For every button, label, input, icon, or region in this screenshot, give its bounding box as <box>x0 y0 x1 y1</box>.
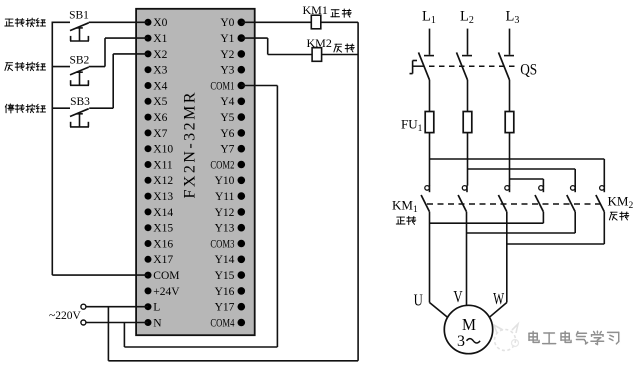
phase terminal L3 <box>504 9 519 56</box>
label U <box>414 291 423 310</box>
svg-text:X17: X17 <box>153 254 173 266</box>
PLC output pin Y6 <box>220 128 245 140</box>
phase terminal L1 <box>422 9 436 56</box>
fuse FU1 phase A <box>425 112 434 186</box>
svg-text:COM2: COM2 <box>210 159 234 171</box>
wire SB2 to X1 <box>89 38 148 67</box>
svg-text:SB2: SB2 <box>69 54 89 66</box>
PLC input pin +24V <box>145 286 181 298</box>
wire SB3 to X2 <box>89 54 148 108</box>
PLC input pin L <box>145 302 161 314</box>
PLC output pin Y16 <box>215 286 246 298</box>
PLC input pin X14 <box>145 207 174 219</box>
svg-text:Y13: Y13 <box>215 223 235 235</box>
PLC input pin X10 <box>145 144 174 156</box>
PLC controller FX2N-32MR <box>136 9 255 335</box>
PLC output pin Y2 <box>220 49 245 61</box>
svg-text:Y3: Y3 <box>220 65 234 77</box>
wire COM1 down to bus <box>241 86 277 348</box>
svg-text:Y4: Y4 <box>220 96 234 108</box>
svg-text:X1: X1 <box>153 33 167 45</box>
fuse FU1 label <box>401 117 423 135</box>
svg-text:U: U <box>414 291 423 310</box>
svg-text:Y7: Y7 <box>220 144 234 156</box>
PLC input pin X3 <box>145 65 168 77</box>
wire KM1/KM2 output bus W <box>507 243 605 245</box>
svg-text:X13: X13 <box>153 191 173 203</box>
disconnect switch QS <box>410 52 538 111</box>
svg-text:M: M <box>462 315 476 334</box>
watermark cat logo <box>494 324 519 351</box>
svg-text:Y1: Y1 <box>220 33 234 45</box>
PLC output pin Y11 <box>215 191 245 203</box>
svg-text:~220V: ~220V <box>49 310 81 322</box>
PLC output pin Y1 <box>220 33 245 45</box>
PLC output pin Y12 <box>215 207 246 219</box>
svg-text:+24V: +24V <box>153 286 180 298</box>
PLC output pin Y3 <box>220 65 245 77</box>
wire 220V live to L pin <box>86 306 148 308</box>
svg-text:L3: L3 <box>506 9 520 27</box>
svg-text:X15: X15 <box>153 223 173 235</box>
svg-text:X6: X6 <box>153 112 167 124</box>
wire U into motor <box>430 303 449 319</box>
svg-text:FX2N-32MR: FX2N-32MR <box>182 92 199 198</box>
svg-text:V: V <box>453 287 462 306</box>
PLC input pin COM <box>145 270 180 282</box>
svg-text:X14: X14 <box>153 207 173 219</box>
svg-text:L: L <box>153 302 160 314</box>
wire Y1 to KM2 coil <box>241 38 312 54</box>
svg-text:L1: L1 <box>422 9 436 27</box>
PLC input pin X15 <box>145 223 174 235</box>
wire coil return bus riser <box>357 22 359 361</box>
fuse FU1 phase B <box>463 112 472 186</box>
PLC input pin X7 <box>145 128 168 140</box>
phase terminal L2 <box>460 9 474 56</box>
label forward (zheng zhuan) <box>331 9 351 17</box>
PLC input pin X12 <box>145 175 174 187</box>
wire 220V neutral to N pin <box>86 322 148 324</box>
wire KM2 coil to return bus <box>322 54 359 56</box>
wire L tap down to coil return bus <box>108 307 358 361</box>
PLC input pin X2 <box>145 49 168 61</box>
wire SB1 to X0 <box>89 21 148 23</box>
label KM1 (right) <box>392 198 418 216</box>
svg-text:Y15: Y15 <box>215 270 235 282</box>
contactor coil KM1 <box>303 3 328 29</box>
KM1-KM2 linkage dashed line <box>427 203 600 205</box>
svg-text:QS: QS <box>520 62 537 79</box>
push button SB1 <box>52 9 89 41</box>
wire W into motor <box>488 303 507 319</box>
svg-text:X3: X3 <box>153 65 167 77</box>
svg-text:Y2: Y2 <box>220 49 234 61</box>
motor M 3-phase <box>444 305 492 353</box>
wire N tap down to COM1 bus <box>124 323 277 348</box>
svg-text:N: N <box>153 317 162 329</box>
terminal L (circle) <box>81 304 86 309</box>
watermark text dian gong dian qi xue xi <box>530 332 620 345</box>
PLC output pin Y13 <box>215 223 246 235</box>
svg-text:X16: X16 <box>153 238 173 250</box>
PLC input pin X13 <box>145 191 174 203</box>
contactor KM2 main contact pole2 <box>567 185 575 233</box>
terminal N (circle) <box>81 320 86 325</box>
svg-text:KM1: KM1 <box>303 3 328 17</box>
svg-text:COM1: COM1 <box>210 80 234 92</box>
PLC output pin Y14 <box>215 254 246 266</box>
PLC output pin Y15 <box>215 270 246 282</box>
svg-text:X12: X12 <box>153 175 173 187</box>
wire KM1/KM2 output bus V <box>467 232 576 234</box>
PLC output pin Y10 <box>215 175 246 187</box>
PLC input pin X6 <box>145 112 168 124</box>
label reverse button (fan zhuan an niu) <box>5 62 46 71</box>
contactor KM2 main contact pole1 <box>535 185 543 223</box>
svg-text:SB3: SB3 <box>70 96 90 108</box>
contactor KM1 main contact pole3 <box>498 185 509 302</box>
svg-text:X4: X4 <box>153 80 167 92</box>
push button SB2 <box>52 54 89 85</box>
PLC output pin Y0 <box>220 17 245 29</box>
svg-text:KM2: KM2 <box>608 194 634 212</box>
svg-text:X2: X2 <box>153 49 167 61</box>
label W <box>493 289 504 308</box>
svg-text:COM4: COM4 <box>210 317 234 329</box>
fuse FU1 phase C <box>505 112 514 186</box>
PLC input pin X5 <box>145 96 168 108</box>
PLC input pin X4 <box>145 80 168 92</box>
label V <box>453 287 462 306</box>
svg-text:X10: X10 <box>153 144 173 156</box>
svg-text:X7: X7 <box>153 128 167 140</box>
wire Y0 to KM1 coil <box>241 21 311 23</box>
PLC input pin N <box>145 317 163 329</box>
wire KM1/KM2 output bus U <box>430 222 544 224</box>
PLC output pin Y4 <box>220 96 245 108</box>
svg-text:Y6: Y6 <box>220 128 234 140</box>
wire phase A feeder to KM2 pole3 <box>430 159 605 186</box>
label KM2 (right) <box>608 194 634 212</box>
svg-text:Y16: Y16 <box>215 286 235 298</box>
svg-text:Y10: Y10 <box>215 175 235 187</box>
svg-text:FU1: FU1 <box>401 117 423 135</box>
contactor KM1 main contact pole1 <box>421 185 429 302</box>
contactor coil KM2 <box>307 36 332 61</box>
svg-text:Y14: Y14 <box>215 254 235 266</box>
PLC input pin X1 <box>145 33 168 45</box>
PLC input pin X17 <box>145 254 174 266</box>
svg-text:3: 3 <box>457 333 465 350</box>
svg-text:L2: L2 <box>460 9 474 27</box>
contactor KM2 main contact pole3 <box>596 185 604 244</box>
PLC input pin X0 <box>145 17 168 29</box>
label reverse under KM2 (fan zhuan) <box>609 212 628 220</box>
svg-text:Y0: Y0 <box>220 17 234 29</box>
label forward button (zheng zhuan an niu) <box>5 18 46 27</box>
contactor KM1 main contact pole2 <box>458 185 467 305</box>
label reverse (fan zhuan) <box>334 44 354 52</box>
wire phase C feeder to KM2 pole1 <box>510 179 544 186</box>
svg-text:SB1: SB1 <box>69 9 89 21</box>
PLC output pin Y5 <box>220 112 245 124</box>
PLC input pin X16 <box>145 238 174 250</box>
PLC output pin COM4 <box>210 317 245 329</box>
svg-text:Y12: Y12 <box>215 207 235 219</box>
svg-text:KM1: KM1 <box>392 198 418 216</box>
svg-text:Y17: Y17 <box>215 302 235 314</box>
label ~220V <box>49 310 81 322</box>
svg-text:X11: X11 <box>153 159 173 171</box>
wire KM1 coil to return bus <box>321 21 358 23</box>
PLC output pin Y7 <box>220 144 245 156</box>
wire button common to COM <box>52 22 148 276</box>
PLC input pin X11 <box>145 159 173 171</box>
svg-text:X0: X0 <box>153 17 167 29</box>
PLC output pin COM3 <box>210 238 245 250</box>
label forward under KM1 (zheng zhuan) <box>396 216 415 224</box>
label stop button (ting zhuan an niu) <box>5 104 45 113</box>
push button SB3 <box>52 96 90 127</box>
svg-text:X5: X5 <box>153 96 167 108</box>
PLC output pin COM1 <box>210 80 245 92</box>
svg-text:COM3: COM3 <box>210 238 234 250</box>
svg-text:Y11: Y11 <box>215 191 235 203</box>
svg-text:Y5: Y5 <box>220 112 234 124</box>
PLC output pin COM2 <box>210 159 245 171</box>
wire phase B feeder to KM2 pole2 <box>468 169 576 186</box>
PLC output pin Y17 <box>215 302 246 314</box>
svg-text:COM: COM <box>153 270 179 282</box>
svg-text:KM2: KM2 <box>307 36 332 50</box>
